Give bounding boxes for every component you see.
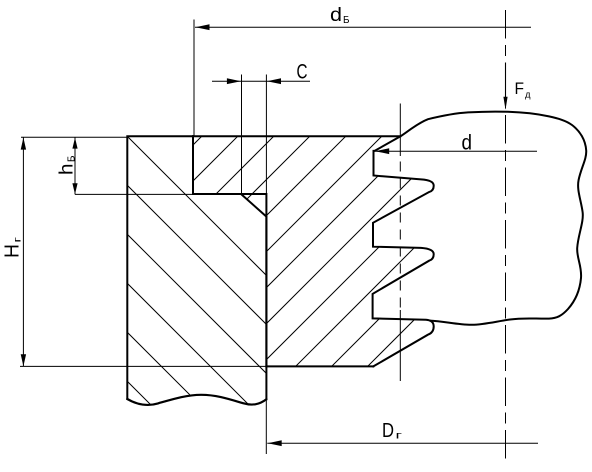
svg-text:D: D bbox=[382, 419, 394, 442]
part C block outline bbox=[375, 112, 587, 325]
svg-text:C: C bbox=[297, 61, 308, 84]
dimension D_g (bore diameter) bbox=[266, 369, 538, 454]
part B threaded insert outline bbox=[193, 136, 434, 366]
svg-text:d: d bbox=[330, 5, 342, 26]
svg-text:h: h bbox=[57, 164, 78, 176]
svg-text:г: г bbox=[12, 237, 24, 243]
svg-text:Б: Б bbox=[343, 14, 350, 26]
part A housing hatching bbox=[118, 127, 272, 472]
thread boundary line bbox=[399, 104, 401, 382]
part B insert hatching bbox=[0, 130, 592, 375]
force F_d arrow bbox=[503, 63, 531, 110]
dimension h_b (flange height) bbox=[21, 137, 192, 194]
part A housing outline bbox=[127, 136, 266, 405]
center line axis bbox=[505, 10, 507, 459]
svg-text:H: H bbox=[2, 244, 24, 258]
dimension C (gap) bbox=[212, 61, 310, 196]
dimension d_b (flange diameter) bbox=[194, 5, 531, 136]
dimension H_g (insert height) bbox=[2, 137, 267, 366]
dimension d (thread diameter) bbox=[375, 132, 537, 155]
svg-text:d: d bbox=[462, 132, 473, 155]
svg-text:д: д bbox=[525, 90, 531, 101]
svg-text:г: г bbox=[396, 430, 403, 442]
svg-text:Б: Б bbox=[66, 155, 78, 162]
svg-text:F: F bbox=[515, 79, 525, 98]
